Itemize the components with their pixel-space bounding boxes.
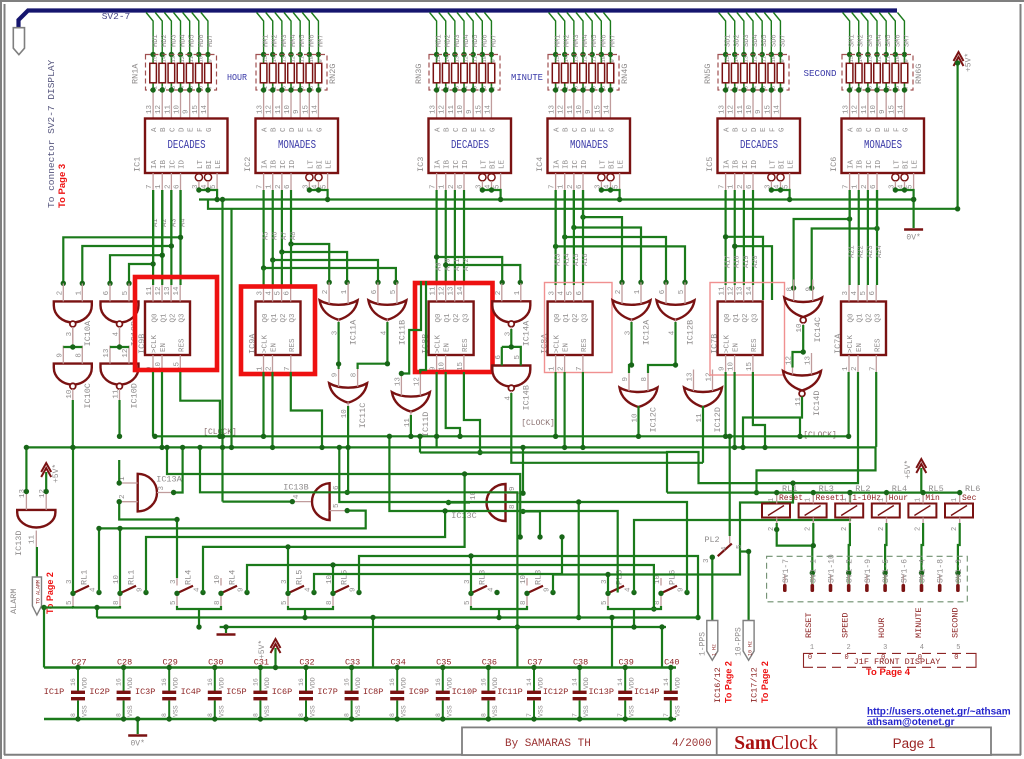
pin 7 wire: [263, 173, 265, 190]
pin 4 wire BI: [780, 181, 782, 190]
svg-text:Q0: Q0: [724, 313, 732, 323]
svg-text:Q3: Q3: [875, 313, 883, 323]
wire IC13A in1: [118, 460, 120, 483]
wire stair 556: [359, 556, 698, 618]
svg-text:MD4: MD4: [463, 34, 471, 47]
wire RN4G pin to IC4 pin: [600, 90, 602, 119]
svg-text:VSS: VSS: [173, 705, 180, 717]
svg-text:15: 15: [262, 56, 269, 63]
svg-text:3: 3: [703, 558, 711, 563]
svg-text:ID: ID: [179, 159, 187, 169]
wire bus tap SM2: [852, 13, 859, 55]
pin 2: [564, 355, 566, 372]
svg-text:2: 2: [951, 527, 959, 531]
pin 12: [419, 374, 421, 396]
svg-text:14: 14: [572, 678, 579, 686]
svg-text:8: 8: [787, 287, 795, 292]
svg-text:13: 13: [103, 348, 111, 358]
svg-text:E: E: [298, 127, 306, 132]
svg-text:Q0: Q0: [848, 313, 856, 323]
pin 13 Q2: [170, 285, 172, 302]
svg-text:11: 11: [737, 104, 745, 114]
svg-text:MM2: MM2: [564, 34, 572, 47]
svg-text:BI: BI: [903, 160, 911, 169]
junction PL6 left: [605, 591, 610, 596]
svg-text:Reset: Reset: [779, 494, 803, 503]
svg-text:16: 16: [480, 678, 487, 686]
pin 12 Q1: [734, 285, 736, 302]
svg-text:IC6: IC6: [829, 157, 839, 172]
svg-text:14: 14: [173, 286, 181, 296]
svg-text:1: 1: [768, 498, 776, 502]
svg-text:6: 6: [284, 291, 292, 296]
wire PL2 pin5 to 10-PPS: [740, 552, 749, 621]
pin 7 wire: [152, 173, 154, 190]
svg-text:3: 3: [158, 486, 166, 491]
svg-text:4: 4: [194, 587, 202, 592]
svg-text:G: G: [316, 127, 324, 132]
svg-text:IB: IB: [857, 159, 865, 169]
wire IC5 to IC7B: [724, 190, 726, 285]
pin 2: [328, 282, 330, 304]
svg-text:15: 15: [152, 56, 159, 63]
svg-text:VDD: VDD: [674, 677, 681, 689]
wire IC13B out6 up: [346, 491, 349, 493]
wire IC14B out to IC12D out: [511, 393, 703, 463]
svg-text:9: 9: [879, 109, 887, 114]
pin 2: [501, 283, 503, 301]
svg-text:15: 15: [302, 104, 310, 114]
wire +5V to IC13D in12: [45, 472, 47, 493]
svg-text:5: 5: [170, 600, 178, 605]
nand gate IC14A: [492, 301, 530, 327]
wire IC11B out to IC11C in8: [358, 322, 388, 369]
pin 5: [520, 348, 522, 366]
svg-text:A: A: [724, 127, 732, 132]
svg-text:10-PPS: 10-PPS: [735, 627, 744, 656]
svg-text:7: 7: [146, 184, 154, 189]
svg-text:Q1: Q1: [857, 313, 865, 323]
svg-text:B: B: [160, 127, 168, 132]
svg-text:RES: RES: [289, 338, 297, 352]
svg-text:6: 6: [870, 184, 878, 189]
wire RN2G pin to IC2 pin: [272, 90, 274, 119]
svg-text:LT: LT: [769, 159, 777, 169]
pin 4: [294, 501, 311, 503]
svg-text:ALARM: ALARM: [9, 588, 19, 614]
svg-text:Q1: Q1: [563, 313, 571, 323]
svg-text:5: 5: [275, 291, 283, 296]
resistor network RN3G: [429, 55, 500, 91]
svg-text:VSS: VSS: [674, 705, 681, 717]
wire bus tap HD3: [164, 13, 171, 55]
svg-text:IC11A: IC11A: [349, 319, 359, 345]
svg-text:1: 1: [951, 498, 959, 502]
pin 7: [582, 355, 584, 372]
svg-text:HD2: HD2: [161, 34, 169, 47]
wire IC9B CLK to clock trunk: [152, 372, 154, 436]
svg-text:10: 10: [197, 56, 204, 63]
svg-text:1: 1: [842, 366, 850, 371]
wire RN2G pin to IC2 pin: [299, 90, 301, 119]
wire net A3: [82, 190, 171, 283]
wire stair 537: [146, 511, 445, 593]
wire RN2G pin to IC2 pin: [263, 90, 265, 119]
svg-text:2: 2: [558, 366, 566, 371]
inversion bubble BI: [488, 174, 495, 181]
wire IC4 to IC8A: [573, 190, 575, 285]
power rail 0V bottom: [44, 718, 676, 721]
pin 5 Q2: [573, 285, 575, 302]
svg-text:1 Hz: 1 Hz: [711, 644, 717, 656]
svg-text:9: 9: [56, 353, 64, 358]
svg-text:SD5: SD5: [761, 34, 769, 47]
capacitor C35: [436, 668, 450, 720]
svg-text:2: 2: [448, 184, 456, 189]
svg-text:Q0: Q0: [554, 313, 562, 323]
svg-text:RL5: RL5: [295, 570, 305, 585]
svg-text:TO ALARM: TO ALARM: [36, 580, 42, 604]
wire bus tap SM7: [897, 13, 904, 55]
svg-text:4: 4: [625, 587, 633, 592]
power +5V* top right: [954, 52, 964, 66]
svg-text:IC13A: IC13A: [156, 475, 182, 485]
svg-text:2: 2: [567, 184, 575, 189]
wire PL2 clock feed: [729, 436, 731, 536]
svg-text:2: 2: [119, 494, 127, 499]
svg-text:SM7: SM7: [903, 34, 911, 47]
wire feed PL6a: [607, 575, 609, 594]
pin 10: [445, 355, 447, 372]
pin 2: [922, 518, 924, 525]
wire RN1A pin to IC1 pin: [198, 90, 200, 119]
svg-text:F: F: [480, 127, 488, 132]
nor gate IC14D: [783, 371, 821, 397]
svg-text:SV1-9: SV1-9: [864, 559, 873, 583]
pin 11 Q0: [152, 285, 154, 302]
switch PL6: [661, 578, 677, 606]
wire switch bottoms 2: [177, 606, 221, 609]
svg-text:12: 12: [728, 286, 736, 295]
svg-text:D: D: [581, 127, 589, 132]
jumper RL4: [872, 504, 900, 518]
junction IC5 LE to trunk: [787, 197, 792, 202]
inversion bubble LT: [598, 174, 605, 181]
svg-text:By SAMARAS TH: By SAMARAS TH: [505, 738, 591, 750]
wire net A13: [556, 190, 685, 282]
pin 2: [272, 355, 274, 372]
svg-text:C40: C40: [664, 658, 679, 668]
counter IC9B: [145, 302, 190, 356]
pin 11: [119, 389, 121, 403]
svg-text:5: 5: [567, 291, 575, 296]
wire net A7: [282, 190, 347, 282]
svg-text:11: 11: [472, 55, 479, 62]
svg-text:10: 10: [870, 104, 878, 114]
svg-text:10: 10: [520, 574, 528, 584]
wire PL2 pin3 to 1-PPS: [711, 557, 713, 620]
svg-text:3: 3: [170, 579, 178, 584]
svg-text:13: 13: [170, 56, 177, 63]
wire bus tap MD4: [457, 13, 464, 55]
wire low to caps 1: [372, 618, 374, 668]
power +5V* arrow bottom: [271, 639, 281, 653]
svg-text:IC11P: IC11P: [497, 687, 523, 697]
pin 4 wire BI: [904, 181, 906, 190]
svg-text:14: 14: [746, 286, 754, 296]
pin 4 wire BI: [318, 181, 320, 190]
wire bus tap HM5: [293, 13, 300, 55]
connector pin SV1-6: [902, 575, 904, 584]
pin 1 wire: [858, 173, 860, 190]
svg-text:A5: A5: [263, 232, 271, 240]
pin 11: [410, 411, 412, 431]
wire IC8B CLK down: [436, 372, 438, 447]
wire IC14A out to IC14B inputs: [510, 329, 512, 347]
svg-text:6: 6: [371, 289, 379, 294]
pin 3: [338, 319, 340, 339]
pin 10: [347, 402, 349, 422]
svg-text:Q2: Q2: [453, 313, 461, 322]
pin 9: [812, 280, 814, 302]
svg-text:IC11D: IC11D: [421, 412, 431, 438]
svg-text:13: 13: [549, 104, 557, 114]
svg-text:Q2: Q2: [866, 313, 874, 322]
wire IC9A RES down: [291, 372, 322, 447]
junction IC6 LE to trunk: [911, 197, 916, 202]
svg-text:Min: Min: [925, 494, 940, 503]
svg-text:RN1A: RN1A: [131, 63, 141, 84]
svg-text:10: 10: [894, 56, 901, 63]
svg-text:9: 9: [293, 109, 301, 114]
svg-text:B: B: [857, 127, 865, 132]
svg-text:Q2: Q2: [280, 313, 288, 322]
connector pin SV1-1: [811, 575, 813, 584]
svg-text:Q3: Q3: [581, 313, 589, 323]
pin 5 wire LE: [216, 173, 218, 190]
svg-text:7: 7: [663, 713, 670, 717]
svg-text:+5V*: +5V*: [258, 640, 267, 659]
svg-text:13: 13: [448, 286, 456, 296]
svg-text:C39: C39: [619, 658, 634, 668]
svg-text:8: 8: [435, 713, 442, 717]
svg-text:10 Hz: 10 Hz: [748, 641, 754, 656]
wire long drop left a: [221, 200, 223, 502]
svg-text:5: 5: [122, 290, 130, 295]
pin 15: [179, 355, 181, 372]
svg-text:RN6G: RN6G: [914, 64, 924, 84]
svg-text:LE: LE: [912, 159, 920, 169]
svg-text:IC12C: IC12C: [649, 407, 659, 433]
svg-text:IC10A: IC10A: [83, 320, 93, 346]
svg-text:RL5: RL5: [928, 484, 943, 494]
wire IC1 to IC9B: [170, 190, 172, 285]
wire IC7B CLK down: [724, 372, 726, 436]
svg-text:SM3: SM3: [867, 34, 875, 47]
svg-text:IB: IB: [271, 159, 279, 169]
capacitor C38: [573, 668, 587, 720]
wire stair 511: [389, 436, 617, 592]
pin 11: [35, 531, 37, 548]
svg-text:5: 5: [210, 184, 218, 189]
svg-text:4: 4: [293, 494, 301, 499]
pin 6: [109, 283, 111, 301]
pin 8: [81, 346, 83, 364]
switch RL3: [527, 578, 543, 606]
counter IC9A: [256, 302, 301, 356]
svg-text:IC6P: IC6P: [272, 687, 292, 697]
svg-text:12: 12: [290, 56, 297, 63]
junction RL1 left: [117, 591, 122, 596]
capacitor C28: [117, 668, 131, 720]
svg-text:1: 1: [75, 290, 83, 295]
pin 9: [506, 492, 524, 494]
counter IC7A: [841, 302, 886, 356]
svg-text:VDD: VDD: [264, 677, 271, 689]
connector J1F FRONT DISPLAY: [804, 653, 977, 667]
svg-text:13: 13: [719, 104, 727, 114]
svg-text:3: 3: [257, 291, 265, 296]
wire RN1A pin to IC1 pin: [161, 90, 163, 119]
svg-text:5: 5: [390, 289, 398, 294]
svg-text:MINUTE: MINUTE: [511, 72, 543, 83]
svg-text:ID: ID: [581, 159, 589, 169]
svg-text:11: 11: [861, 104, 869, 114]
svg-text:5: 5: [281, 600, 289, 605]
svg-text:5: 5: [333, 503, 341, 508]
capacitor C36: [481, 668, 495, 720]
svg-text:C: C: [742, 127, 750, 132]
wire IC3 to IC8B: [454, 190, 456, 285]
svg-text:Q2: Q2: [742, 313, 750, 322]
svg-text:BI: BI: [317, 160, 325, 169]
wire IC7B EN down: [733, 372, 735, 447]
pin 7: [290, 355, 292, 372]
wire IC13B in4: [223, 501, 293, 503]
svg-text:ID: ID: [875, 159, 883, 169]
wire IC7A EN down: [667, 372, 858, 493]
pin 2 wire: [454, 173, 456, 190]
svg-text:Q3: Q3: [751, 313, 759, 323]
svg-text:IA: IA: [554, 159, 562, 169]
wire RN3G pin to IC3 pin: [490, 90, 492, 119]
pin 1 wire: [445, 173, 447, 190]
svg-text:Q2: Q2: [572, 313, 580, 322]
svg-text:0: 0: [954, 654, 958, 662]
svg-text:15: 15: [475, 104, 483, 114]
highlight red box IC8B: [415, 283, 493, 372]
svg-text:6: 6: [746, 184, 754, 189]
pin 4 wire BI: [610, 181, 612, 190]
pin 8: [357, 365, 359, 387]
wire chain down 1: [96, 608, 98, 618]
svg-text:A20: A20: [752, 255, 760, 268]
svg-text:13: 13: [737, 286, 745, 296]
svg-text:SV1-10: SV1-10: [828, 554, 837, 583]
pin 5 wire LE: [500, 173, 502, 190]
svg-text:A14: A14: [564, 253, 572, 266]
svg-text:RL2: RL2: [855, 484, 870, 494]
pin 1: [640, 282, 642, 304]
svg-text:RES: RES: [178, 338, 186, 352]
inversion bubble LT: [768, 174, 775, 181]
svg-text:2: 2: [878, 527, 886, 531]
svg-text:9: 9: [137, 587, 145, 592]
svg-text:12: 12: [439, 286, 447, 295]
svg-text:14: 14: [311, 104, 319, 114]
svg-text:SM5: SM5: [885, 34, 893, 47]
wire IC13A in2: [119, 502, 177, 578]
wire IC2 to IC9A: [281, 252, 283, 285]
svg-text:F: F: [197, 127, 205, 132]
pin 13: [811, 353, 813, 375]
switch PL2: [718, 544, 732, 557]
pin 6 wire: [876, 173, 878, 190]
nand gate IC14B: [492, 366, 530, 392]
counter IC8B: [429, 302, 474, 356]
svg-text:16: 16: [252, 678, 259, 686]
svg-text:12: 12: [179, 56, 186, 63]
pin 5 wire LE: [327, 173, 329, 190]
trunk wire H2: [26, 447, 875, 492]
svg-text:VSS: VSS: [127, 705, 134, 717]
svg-text:3: 3: [883, 644, 887, 652]
svg-text:Hour: Hour: [889, 494, 908, 503]
svg-text:1: 1: [634, 289, 642, 294]
jumper RL6: [945, 504, 973, 518]
pin 1: [776, 493, 778, 504]
svg-text:16: 16: [435, 678, 442, 686]
wire to IC14A input: [446, 265, 521, 282]
display driver IC1 DECADES: [145, 119, 228, 174]
inversion bubble BI: [315, 174, 322, 181]
connector pin SV1-3: [957, 575, 959, 584]
svg-text:9: 9: [490, 59, 497, 62]
pin 1 wire: [161, 173, 163, 190]
svg-text:RES: RES: [581, 338, 589, 352]
svg-text:14: 14: [271, 55, 278, 62]
svg-text:6: 6: [174, 184, 182, 189]
svg-text:RL3: RL3: [478, 570, 488, 585]
svg-text:5: 5: [601, 600, 609, 605]
svg-text:IC: IC: [572, 159, 580, 169]
svg-text:IC12D: IC12D: [713, 407, 723, 433]
wire IC10B out to IC10D inputs: [119, 328, 121, 347]
svg-text:C: C: [169, 127, 177, 132]
junction RL5 left: [285, 591, 290, 596]
svg-text:E: E: [590, 127, 598, 132]
svg-text:14: 14: [563, 55, 570, 62]
svg-text:15: 15: [848, 56, 855, 63]
nand gate IC10A: [54, 301, 92, 327]
svg-text:2: 2: [615, 290, 623, 295]
svg-text:4/2000: 4/2000: [672, 738, 712, 750]
svg-text:10: 10: [439, 361, 447, 371]
wire low chain b: [304, 609, 306, 618]
svg-text:8: 8: [654, 600, 662, 605]
svg-text:A18: A18: [734, 255, 742, 268]
svg-text:IC: IC: [453, 159, 461, 169]
svg-text:Q1: Q1: [733, 313, 741, 323]
power +5V* for IC13D: [41, 463, 51, 477]
switch RL5: [333, 578, 349, 606]
svg-text:B: B: [271, 127, 279, 132]
pin 1 wire: [272, 173, 274, 190]
junction RL5: [311, 590, 316, 595]
svg-text:C: C: [280, 127, 288, 132]
capacitor C40: [664, 668, 678, 720]
wire switch bottoms 3: [288, 606, 333, 609]
